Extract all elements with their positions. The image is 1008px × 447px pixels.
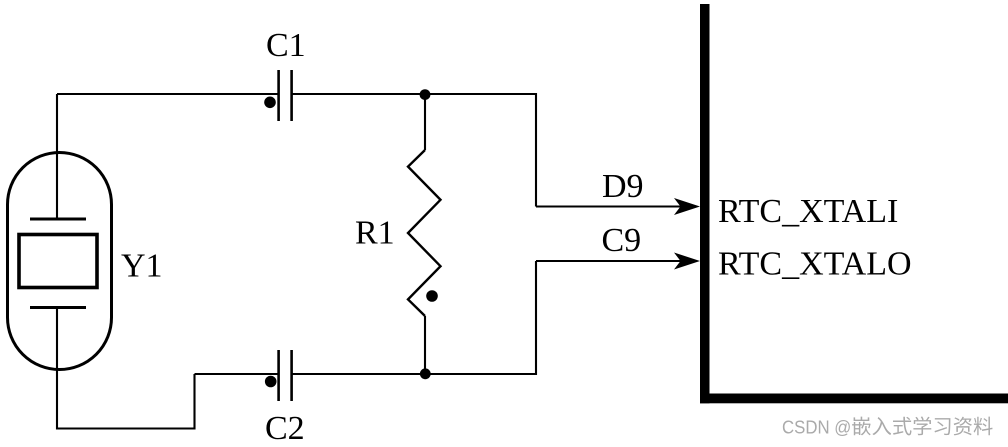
svg-text:RTC_XTALO: RTC_XTALO bbox=[718, 245, 912, 282]
signal C9 wire with arrow into chip bbox=[536, 253, 700, 270]
junction dot at C1 left plate bbox=[264, 97, 276, 109]
resistor R1 zigzag body bbox=[408, 150, 441, 316]
node: top junction A bbox=[420, 89, 431, 100]
svg-text:R1: R1 bbox=[355, 215, 395, 252]
wire: C1 right plate to corner above D9 bbox=[292, 93, 536, 95]
junction dot at C2 left plate bbox=[265, 376, 277, 388]
wire: bottom corner to C2 left plate bbox=[195, 373, 279, 375]
svg-text:D9: D9 bbox=[602, 168, 644, 205]
resistor R1 top lead bbox=[424, 94, 426, 150]
crystal Y1 bottom electrode plate bbox=[30, 306, 86, 309]
wire: C2 right plate to corner below C9 bbox=[292, 373, 536, 375]
svg-text:CSDN @: CSDN @ bbox=[782, 417, 851, 438]
capacitor C2 bbox=[279, 350, 292, 401]
capacitor C1 bbox=[279, 70, 292, 121]
svg-text:C2: C2 bbox=[265, 410, 305, 447]
crystal Y1 top electrode plate bbox=[30, 218, 86, 221]
wire: vertical drop to D9 line bbox=[535, 93, 537, 207]
svg-text:RTC_XTALI: RTC_XTALI bbox=[718, 193, 898, 230]
resistor R1 bottom lead bbox=[424, 316, 426, 374]
watermark CSDN bbox=[782, 416, 993, 437]
wire: crystal bottom lead down and around to C2 bbox=[57, 308, 195, 429]
signal D9 wire with arrow into chip bbox=[536, 198, 700, 215]
chip boundary bottom edge bbox=[700, 394, 1008, 404]
wire: vertical rise to C9 line bbox=[535, 261, 537, 375]
svg-text:C1: C1 bbox=[266, 27, 306, 64]
svg-text:C9: C9 bbox=[602, 222, 642, 259]
stray dot on R1 lower body bbox=[426, 290, 438, 302]
svg-text:Y1: Y1 bbox=[121, 247, 163, 284]
wire: top net from crystal top to C1 left plate bbox=[57, 93, 278, 95]
chip boundary vertical edge bbox=[700, 4, 710, 403]
wire: crystal top lead down into can bbox=[56, 94, 58, 218]
crystal Y1 can outline bbox=[8, 153, 112, 370]
crystal Y1 quartz rectangle bbox=[19, 235, 97, 288]
node: bottom junction B bbox=[420, 368, 431, 379]
